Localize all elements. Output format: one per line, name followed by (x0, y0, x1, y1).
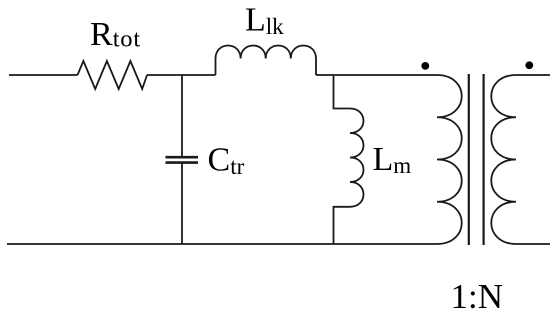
svg-text:Llk: Llk (245, 2, 284, 40)
transformer primary winding (437, 75, 462, 244)
svg-text:Lm: Lm (373, 141, 412, 178)
polarity dot primary (421, 62, 429, 70)
wire secondary top (516, 74, 550, 76)
wire top-left segment (9, 74, 78, 76)
capacitor Ctr top lead (181, 75, 183, 158)
svg-text:1:N: 1:N (451, 277, 504, 316)
polarity dot secondary (525, 61, 533, 69)
wire secondary bottom (516, 243, 550, 245)
wire Llk to transformer (316, 74, 437, 76)
capacitor Ctr bottom lead (181, 163, 183, 244)
resistor Rtot (78, 61, 148, 89)
inductor Llk (216, 46, 317, 75)
transformer secondary winding (491, 75, 516, 244)
svg-text:Rtot: Rtot (90, 16, 141, 53)
inductor Lm (334, 75, 364, 244)
wire resistor to Llk (147, 74, 216, 76)
svg-text:Ctr: Ctr (208, 142, 245, 180)
capacitor Ctr plates (166, 157, 199, 162)
transformer core (469, 74, 484, 245)
wire bottom rail (7, 243, 437, 245)
